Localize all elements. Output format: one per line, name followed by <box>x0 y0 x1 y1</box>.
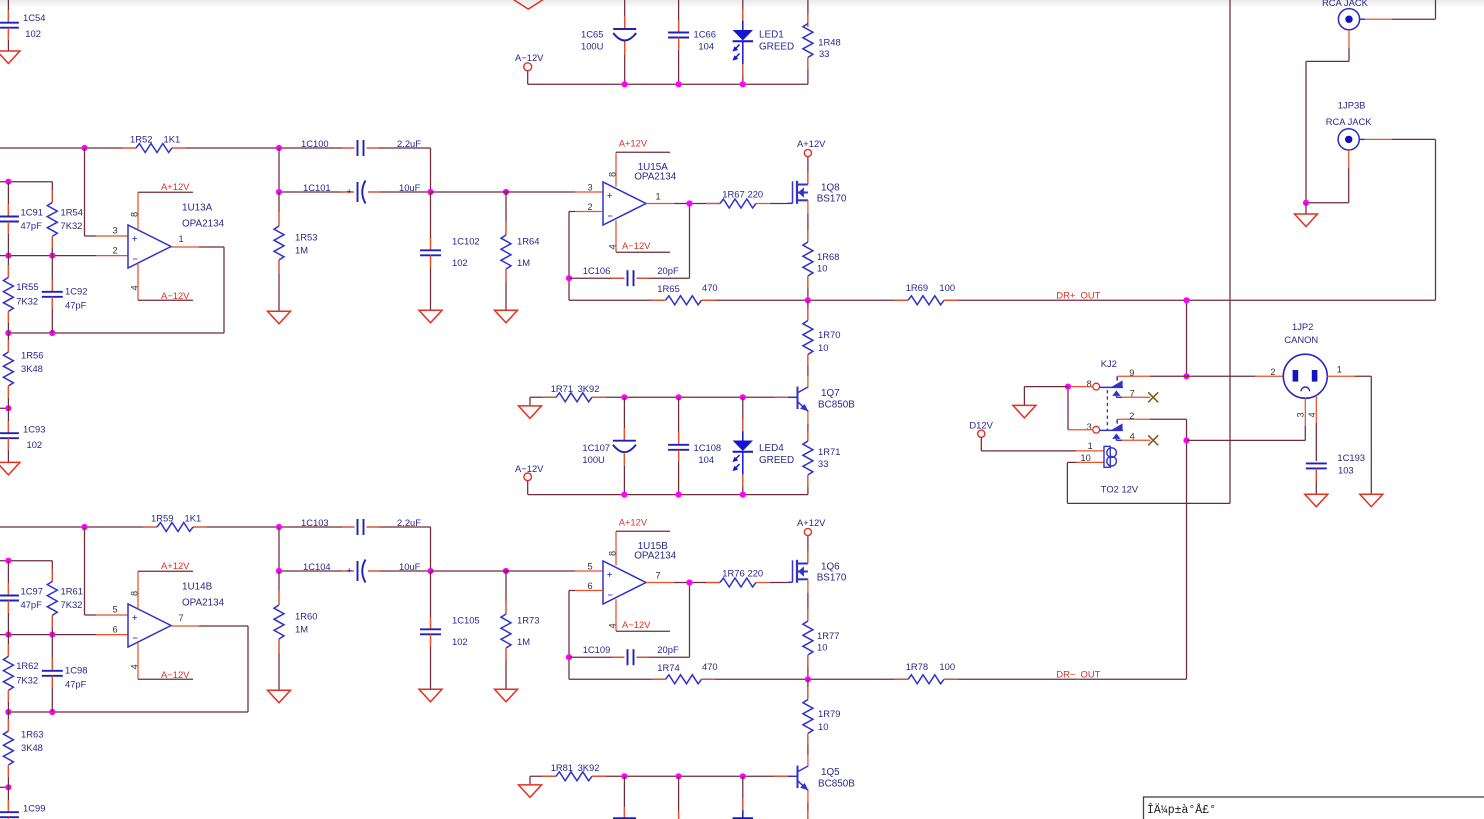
svg-text:3: 3 <box>588 183 593 193</box>
svg-text:1: 1 <box>1088 441 1093 451</box>
svg-text:1R52: 1R52 <box>130 134 152 145</box>
svg-text:1Q6: 1Q6 <box>821 562 840 573</box>
svg-text:5: 5 <box>588 562 593 572</box>
svg-text:7: 7 <box>1130 389 1135 399</box>
svg-text:47pF: 47pF <box>65 679 87 690</box>
svg-text:1C97: 1C97 <box>21 585 43 596</box>
svg-text:1K1: 1K1 <box>185 513 202 524</box>
svg-text:10: 10 <box>818 721 828 732</box>
svg-text:10: 10 <box>818 342 828 353</box>
svg-text:20pF: 20pF <box>657 265 679 276</box>
svg-text:10uF: 10uF <box>399 182 421 193</box>
svg-text:1R81: 1R81 <box>551 762 573 773</box>
svg-text:103: 103 <box>1338 465 1354 476</box>
svg-text:LED1: LED1 <box>759 30 784 41</box>
svg-text:A−12V: A−12V <box>161 290 190 301</box>
svg-text:1C93: 1C93 <box>23 424 45 435</box>
svg-text:KJ2: KJ2 <box>1101 358 1117 369</box>
svg-text:A+12V: A+12V <box>161 181 190 192</box>
svg-text:1JP3B: 1JP3B <box>1338 100 1366 111</box>
svg-text:1C66: 1C66 <box>694 29 716 40</box>
svg-text:1R67: 1R67 <box>722 189 744 200</box>
svg-text:7K32: 7K32 <box>61 599 83 610</box>
svg-text:33: 33 <box>818 458 828 469</box>
svg-text:1M: 1M <box>295 623 308 634</box>
svg-text:BS170: BS170 <box>817 193 847 204</box>
svg-text:A−12V: A−12V <box>622 619 651 630</box>
svg-text:OPA2134: OPA2134 <box>182 219 225 230</box>
svg-text:A−12V: A−12V <box>515 52 544 63</box>
svg-text:8: 8 <box>608 172 618 177</box>
svg-text:+: + <box>132 234 137 244</box>
svg-text:470: 470 <box>702 661 718 672</box>
svg-text:1M: 1M <box>295 244 308 255</box>
svg-text:1R53: 1R53 <box>295 232 317 243</box>
svg-text:1: 1 <box>656 192 661 202</box>
svg-text:3: 3 <box>113 226 118 236</box>
svg-text:1U13A: 1U13A <box>182 202 213 213</box>
svg-text:7K32: 7K32 <box>61 220 83 231</box>
svg-text:OPA2134: OPA2134 <box>634 550 677 561</box>
svg-text:DR−_OUT: DR−_OUT <box>1056 669 1100 680</box>
svg-text:100U: 100U <box>581 41 604 52</box>
svg-text:1C98: 1C98 <box>65 665 87 676</box>
svg-text:1: 1 <box>1337 364 1342 374</box>
svg-text:A+12V: A+12V <box>619 517 648 528</box>
svg-text:CANON: CANON <box>1284 334 1318 345</box>
svg-text:8: 8 <box>130 591 140 596</box>
svg-text:1C107: 1C107 <box>582 442 610 453</box>
svg-text:+: + <box>347 187 352 197</box>
svg-text:1R59: 1R59 <box>151 513 173 524</box>
svg-text:A+12V: A+12V <box>619 138 648 149</box>
svg-text:1R79: 1R79 <box>818 708 840 719</box>
svg-text:47pF: 47pF <box>21 599 43 610</box>
svg-text:7: 7 <box>656 571 661 581</box>
svg-text:1R78: 1R78 <box>906 661 928 672</box>
svg-text:8: 8 <box>1087 379 1092 389</box>
svg-text:4: 4 <box>130 664 140 669</box>
svg-text:1Q7: 1Q7 <box>821 388 840 399</box>
svg-text:1R64: 1R64 <box>517 235 539 246</box>
svg-text:20pF: 20pF <box>657 644 679 655</box>
svg-text:1R55: 1R55 <box>16 281 38 292</box>
svg-text:100U: 100U <box>582 454 605 465</box>
svg-text:1C106: 1C106 <box>583 265 611 276</box>
svg-text:DR+_OUT: DR+_OUT <box>1056 290 1100 301</box>
svg-text:LED4: LED4 <box>759 443 784 454</box>
svg-text:+: + <box>607 570 612 580</box>
svg-text:9: 9 <box>1129 368 1134 378</box>
svg-text:102: 102 <box>452 636 468 647</box>
svg-text:1C99: 1C99 <box>23 803 45 814</box>
svg-text:BC850B: BC850B <box>818 399 855 410</box>
svg-text:8: 8 <box>608 551 618 556</box>
svg-text:OPA2134: OPA2134 <box>634 171 677 182</box>
svg-text:A−12V: A−12V <box>161 669 190 680</box>
svg-text:1R73: 1R73 <box>517 614 539 625</box>
svg-text:100: 100 <box>939 282 955 293</box>
svg-text:1C103: 1C103 <box>301 517 329 528</box>
svg-text:1R74: 1R74 <box>657 662 679 673</box>
svg-text:6: 6 <box>588 581 593 591</box>
svg-text:1R61: 1R61 <box>61 585 83 596</box>
svg-text:A+12V: A+12V <box>161 560 190 571</box>
svg-text:220: 220 <box>748 568 764 579</box>
svg-text:1R63: 1R63 <box>21 728 43 739</box>
svg-text:102: 102 <box>27 439 43 450</box>
svg-text:4: 4 <box>1307 412 1317 417</box>
svg-text:1C193: 1C193 <box>1337 452 1365 463</box>
svg-text:104: 104 <box>698 41 714 52</box>
svg-text:102: 102 <box>25 28 41 39</box>
svg-text:470: 470 <box>702 282 718 293</box>
svg-text:10uF: 10uF <box>399 561 421 572</box>
svg-text:2: 2 <box>588 202 593 212</box>
svg-text:1R48: 1R48 <box>818 37 840 48</box>
svg-text:1C102: 1C102 <box>452 235 480 246</box>
svg-text:3K48: 3K48 <box>21 363 43 374</box>
svg-text:−: − <box>608 590 613 600</box>
svg-text:1R54: 1R54 <box>61 206 83 217</box>
svg-text:7: 7 <box>179 613 184 623</box>
svg-text:1C104: 1C104 <box>303 561 331 572</box>
svg-text:1C101: 1C101 <box>303 182 331 193</box>
svg-text:10: 10 <box>1081 453 1091 463</box>
svg-text:1Q5: 1Q5 <box>821 767 840 778</box>
svg-text:1C108: 1C108 <box>694 442 722 453</box>
svg-text:7K32: 7K32 <box>16 675 38 686</box>
svg-text:4: 4 <box>130 285 140 290</box>
svg-text:1R68: 1R68 <box>817 251 839 262</box>
svg-text:1C65: 1C65 <box>581 29 603 40</box>
svg-text:100: 100 <box>939 661 955 672</box>
svg-text:1M: 1M <box>517 636 530 647</box>
svg-text:1R65: 1R65 <box>657 283 679 294</box>
svg-text:1C109: 1C109 <box>583 644 611 655</box>
svg-text:A+12V: A+12V <box>797 138 826 149</box>
svg-text:7K32: 7K32 <box>16 296 38 307</box>
svg-text:GREED: GREED <box>759 455 794 466</box>
svg-text:3K92: 3K92 <box>578 383 600 394</box>
svg-text:1R71: 1R71 <box>818 446 840 457</box>
svg-text:−: − <box>133 254 138 264</box>
svg-text:3: 3 <box>1296 412 1306 417</box>
svg-text:BC850B: BC850B <box>818 778 855 789</box>
svg-text:8: 8 <box>130 212 140 217</box>
svg-text:1C54: 1C54 <box>23 12 45 23</box>
svg-text:2.2uF: 2.2uF <box>397 517 421 528</box>
svg-text:OPA2134: OPA2134 <box>182 598 225 609</box>
svg-text:−: − <box>608 211 613 221</box>
svg-text:1R56: 1R56 <box>21 349 43 360</box>
svg-text:A−12V: A−12V <box>622 240 651 251</box>
svg-text:10: 10 <box>817 642 827 653</box>
svg-text:1: 1 <box>179 234 184 244</box>
svg-text:2.2uF: 2.2uF <box>397 138 421 149</box>
svg-text:3: 3 <box>1087 422 1092 432</box>
svg-text:1U14B: 1U14B <box>182 581 213 592</box>
svg-text:6: 6 <box>113 625 118 635</box>
svg-text:TO2 12V: TO2 12V <box>1101 484 1139 495</box>
svg-text:5: 5 <box>113 605 118 615</box>
svg-text:1C91: 1C91 <box>21 206 43 217</box>
svg-text:RCA JACK: RCA JACK <box>1326 116 1373 127</box>
svg-text:D12V: D12V <box>969 419 993 430</box>
svg-text:+: + <box>347 566 352 576</box>
svg-text:1Q8: 1Q8 <box>821 183 840 194</box>
svg-text:104: 104 <box>698 454 714 465</box>
svg-text:1C92: 1C92 <box>65 286 87 297</box>
svg-text:33: 33 <box>819 48 829 59</box>
svg-text:47pF: 47pF <box>21 220 43 231</box>
svg-text:1C100: 1C100 <box>301 138 329 149</box>
svg-text:102: 102 <box>452 257 468 268</box>
svg-text:2: 2 <box>1129 411 1134 421</box>
svg-text:ÎÄ¼p±à°Å£°: ÎÄ¼p±à°Å£° <box>1147 803 1216 817</box>
svg-text:A−12V: A−12V <box>515 463 544 474</box>
svg-text:1K1: 1K1 <box>164 134 181 145</box>
svg-text:3K92: 3K92 <box>578 762 600 773</box>
svg-text:1R70: 1R70 <box>818 329 840 340</box>
svg-text:GREED: GREED <box>759 42 794 53</box>
svg-text:4: 4 <box>608 244 618 249</box>
svg-text:1R76: 1R76 <box>722 568 744 579</box>
svg-text:BS170: BS170 <box>817 572 847 583</box>
svg-text:1R77: 1R77 <box>817 630 839 641</box>
svg-text:1R60: 1R60 <box>295 611 317 622</box>
svg-text:1C105: 1C105 <box>452 614 480 625</box>
svg-text:1JP2: 1JP2 <box>1292 321 1313 332</box>
svg-text:1R69: 1R69 <box>906 282 928 293</box>
svg-text:220: 220 <box>748 189 764 200</box>
svg-text:3K48: 3K48 <box>21 742 43 753</box>
svg-text:1M: 1M <box>517 257 530 268</box>
svg-text:1R62: 1R62 <box>16 660 38 671</box>
svg-text:47pF: 47pF <box>65 300 87 311</box>
svg-text:10: 10 <box>817 263 827 274</box>
svg-text:2: 2 <box>113 246 118 256</box>
svg-text:+: + <box>607 191 612 201</box>
svg-text:+: + <box>132 613 137 623</box>
svg-text:A+12V: A+12V <box>797 517 826 528</box>
svg-text:−: − <box>133 633 138 643</box>
svg-text:1R71: 1R71 <box>551 383 573 394</box>
svg-text:4: 4 <box>1130 432 1135 442</box>
svg-text:4: 4 <box>608 623 618 628</box>
svg-text:RCA JACK: RCA JACK <box>1322 0 1369 8</box>
svg-text:2: 2 <box>1270 367 1275 377</box>
